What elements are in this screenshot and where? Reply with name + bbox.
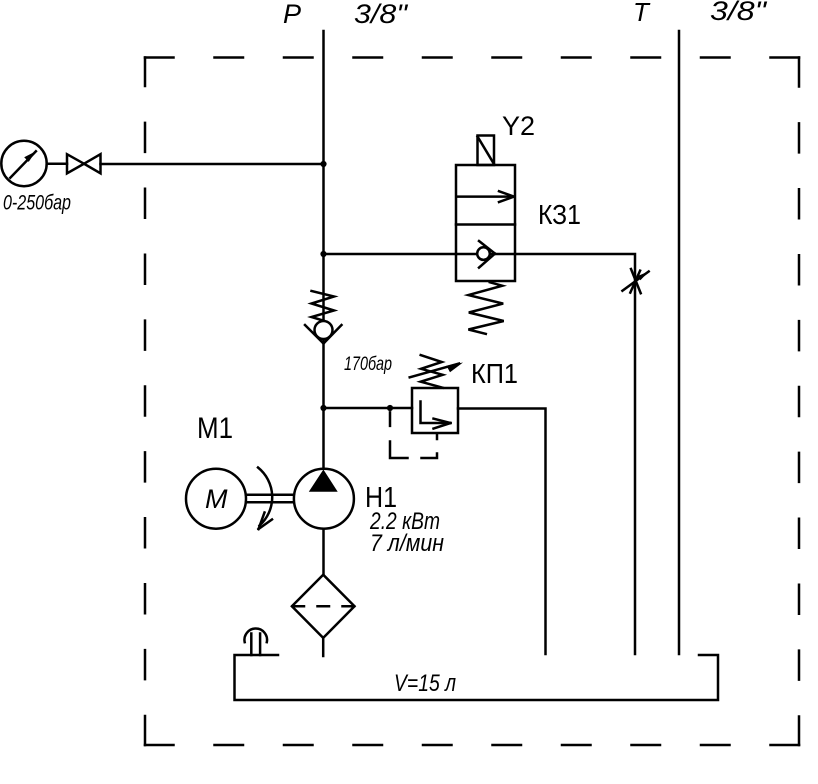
junction K31 branch / P line: [320, 251, 326, 257]
tank V=15 л: [235, 655, 719, 700]
relief valve КП1 adjusting spring: [421, 355, 443, 388]
svg-text:P: P: [283, 0, 301, 29]
wire P line to relief valve КП1: [324, 407, 413, 410]
svg-text:КП1: КП1: [471, 358, 518, 389]
wire T line vertical: [678, 31, 681, 654]
solenoid Y2: [478, 136, 495, 166]
relief valve КП1 internal arrow: [421, 402, 451, 429]
wire P line vertical: [322, 31, 325, 469]
junction КП1 branch / P line: [320, 405, 326, 411]
svg-text:M1: M1: [197, 412, 233, 445]
wire gauge to shutoff valve: [47, 162, 67, 165]
pump H1: [294, 469, 354, 529]
svg-text:0-250бар: 0-250бар: [3, 192, 71, 215]
enclosure dashed border top: [145, 56, 799, 59]
suction filter: [292, 575, 355, 638]
tank breather: [244, 629, 267, 655]
wire filter to tank: [322, 638, 325, 656]
motor-pump shaft: [246, 495, 294, 502]
valve K31 position 1 flow arrow: [458, 191, 515, 202]
shaft rotation arrow: [258, 468, 272, 530]
wire КП1 outlet to tank: [458, 409, 546, 655]
enclosure dashed border right: [798, 58, 801, 746]
wire K31 to throttle corner: [515, 254, 635, 654]
junction gauge line / P line: [320, 161, 326, 167]
check valve on P line: [305, 291, 342, 344]
gauge shutoff valve: [67, 154, 101, 173]
svg-text:КЗ1: КЗ1: [538, 199, 581, 230]
svg-text:3/8": 3/8": [354, 0, 409, 29]
svg-text:M: M: [205, 484, 228, 514]
svg-text:T: T: [633, 0, 651, 27]
enclosure dashed border bottom: [145, 744, 799, 747]
relief valve КП1 body: [412, 388, 458, 433]
pressure gauge: [1, 141, 46, 186]
wire shutoff valve to P line: [101, 163, 324, 166]
valve K31 position 2 check valve: [456, 241, 515, 268]
svg-text:7 л/мин: 7 л/мин: [370, 530, 444, 557]
relief valve КП1 adjustment arrow: [410, 363, 463, 378]
valve K31 body: [456, 165, 515, 281]
svg-text:Y2: Y2: [502, 111, 535, 141]
wire pump to filter: [322, 529, 325, 575]
valve K31 return spring: [468, 282, 503, 334]
throttle shutoff valve: [622, 269, 649, 293]
electric motor M1: [186, 469, 246, 529]
junction pilot line tap: [387, 405, 393, 411]
svg-text:V=15 л: V=15 л: [394, 670, 456, 697]
pilot line dashed: [390, 412, 437, 458]
enclosure dashed border left: [144, 58, 147, 746]
wire P line to valve K31: [324, 253, 457, 256]
svg-text:170бар: 170бар: [344, 354, 392, 375]
svg-text:3/8": 3/8": [710, 0, 768, 26]
